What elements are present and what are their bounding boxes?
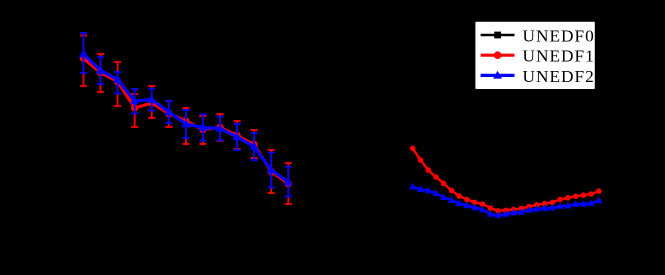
svg-text:UNEDF1: UNEDF1 [523, 47, 595, 66]
legend entry UNEDF0 [481, 27, 595, 46]
svg-text:UNEDF2: UNEDF2 [523, 67, 595, 86]
left panel UNEDF1 red error bars [80, 36, 292, 205]
left panel UNEDF2 blue triangle markers [79, 49, 293, 185]
right panel UNEDF2 blue line [413, 187, 599, 216]
legend entry UNEDF1 [481, 47, 595, 66]
left panel UNEDF2 blue error bars [80, 33, 292, 197]
left panel UNEDF1 red circle markers [80, 55, 292, 187]
svg-text:UNEDF0: UNEDF0 [523, 27, 595, 46]
legend box [475, 21, 596, 90]
right panel UNEDF1 red line [413, 148, 599, 211]
right panel UNEDF1 red circle markers [410, 146, 602, 214]
left panel UNEDF1 red line [84, 59, 289, 184]
left panel UNEDF2 blue line [84, 54, 289, 182]
legend entry UNEDF2 [481, 67, 595, 86]
right panel UNEDF2 blue triangle markers [409, 183, 602, 218]
